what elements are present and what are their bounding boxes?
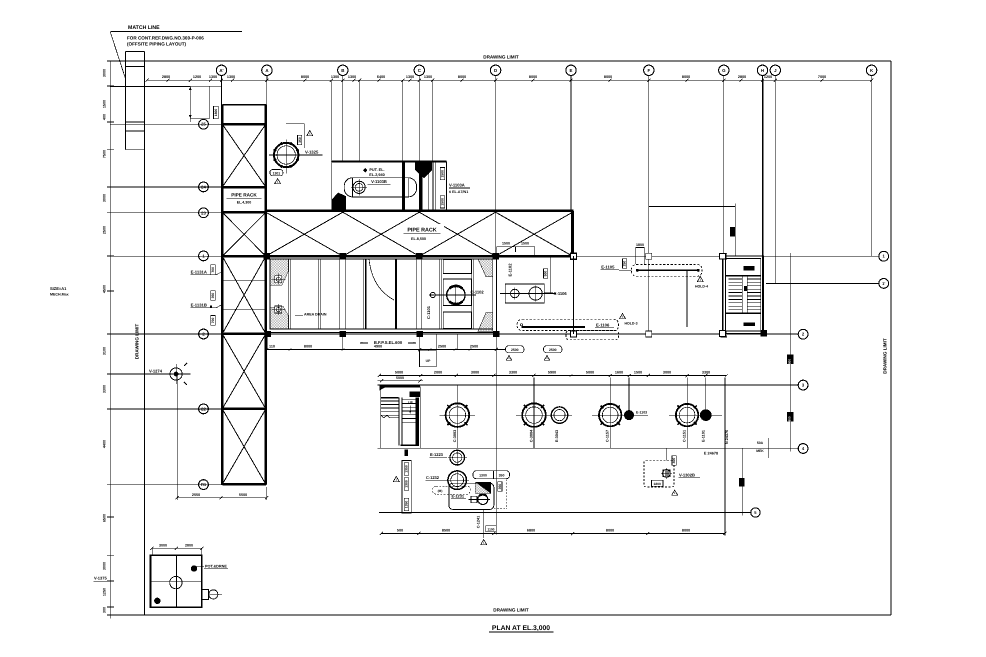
svg-text:C-1157: C-1157: [606, 430, 610, 442]
svg-text:V-1103A: V-1103A: [449, 183, 465, 188]
svg-text:4900: 4900: [374, 344, 382, 348]
svg-text:C-1106: C-1106: [554, 291, 568, 296]
svg-text:G: G: [722, 68, 726, 73]
svg-text:700: 700: [211, 267, 215, 273]
svg-text:V-1103B: V-1103B: [371, 179, 387, 184]
svg-text:C-1102: C-1102: [471, 289, 485, 294]
svg-text:6800: 6800: [527, 528, 535, 532]
svg-text:1250: 1250: [103, 588, 107, 596]
svg-text:E-1102: E-1102: [508, 263, 513, 277]
svg-text:5000: 5000: [586, 370, 594, 374]
svg-text:B.F.P.S.EL.600: B.F.P.S.EL.600: [374, 340, 403, 345]
svg-text:MECH.Max: MECH.Max: [50, 293, 69, 297]
svg-text:1300: 1300: [405, 480, 409, 488]
svg-text:8000: 8000: [682, 528, 690, 532]
svg-text:1800: 1800: [636, 243, 644, 247]
svg-text:6500: 6500: [103, 514, 107, 522]
svg-text:2500: 2500: [549, 348, 557, 352]
svg-text:50A: 50A: [757, 441, 764, 445]
svg-text:E-1101: E-1101: [701, 430, 705, 442]
svg-text:≈: ≈: [413, 341, 415, 345]
svg-text:3000: 3000: [103, 194, 107, 202]
svg-text:1100: 1100: [488, 527, 495, 531]
svg-text:8000: 8000: [304, 344, 312, 348]
svg-text:1300: 1300: [227, 75, 235, 79]
svg-text:C-1151: C-1151: [683, 430, 687, 442]
svg-text:3000: 3000: [103, 562, 107, 570]
svg-text:6400: 6400: [377, 75, 385, 79]
svg-text:PLAN AT EL.3,000: PLAN AT EL.3,000: [492, 625, 550, 632]
svg-text:2500: 2500: [470, 344, 478, 348]
svg-text:1500: 1500: [103, 100, 107, 108]
svg-text:2800: 2800: [185, 543, 193, 547]
svg-text:8000: 8000: [458, 75, 466, 79]
svg-text:E-1103: E-1103: [636, 411, 647, 415]
svg-text:1350: 1350: [405, 501, 409, 509]
svg-text:500: 500: [397, 528, 403, 532]
svg-text:1300: 1300: [406, 75, 414, 79]
svg-text:1350: 1350: [405, 465, 409, 473]
svg-text:E-1105: E-1105: [601, 264, 615, 269]
svg-text:3000: 3000: [159, 543, 167, 547]
svg-text:≈: ≈: [361, 341, 363, 345]
svg-text:MEK: MEK: [756, 449, 764, 453]
svg-text:PIPE RACK: PIPE RACK: [407, 228, 436, 234]
svg-text:800: 800: [788, 359, 792, 364]
svg-text:8000: 8000: [604, 75, 612, 79]
svg-text:E-3043: E-3043: [555, 430, 559, 442]
svg-text:2500: 2500: [511, 348, 519, 352]
svg-text:8000: 8000: [301, 75, 309, 79]
svg-text:C-3003: C-3003: [453, 430, 457, 442]
svg-text:EL.8,500: EL.8,500: [411, 237, 426, 241]
svg-text:HOLD-3: HOLD-3: [624, 322, 637, 326]
svg-text:DRAWING LIMIT: DRAWING LIMIT: [135, 324, 140, 360]
svg-text:E-1131A: E-1131A: [191, 269, 207, 274]
svg-text:PIPE RACK: PIPE RACK: [231, 193, 257, 198]
svg-text:V-1274: V-1274: [149, 369, 163, 374]
svg-text:500: 500: [544, 271, 548, 277]
svg-text:1500: 1500: [521, 242, 529, 246]
svg-text:DRAWING LIMIT: DRAWING LIMIT: [483, 55, 519, 60]
svg-text:(M): (M): [438, 489, 443, 493]
svg-text:1300: 1300: [348, 75, 356, 79]
svg-text:3000: 3000: [471, 370, 479, 374]
svg-text:3100: 3100: [103, 347, 107, 355]
svg-text:1500: 1500: [441, 170, 445, 178]
svg-text:110: 110: [269, 344, 275, 348]
svg-text:5000: 5000: [396, 376, 404, 380]
svg-text:C-1101: C-1101: [426, 305, 431, 319]
svg-text:MATCH LINE: MATCH LINE: [128, 25, 160, 31]
svg-text:1200: 1200: [193, 75, 201, 79]
svg-text:1500: 1500: [634, 370, 642, 374]
svg-text:E-1223: E-1223: [430, 452, 444, 457]
svg-text:7000: 7000: [818, 75, 826, 79]
svg-text:V-1325: V-1325: [305, 150, 319, 155]
svg-text:3000: 3000: [663, 370, 671, 374]
svg-text:800: 800: [788, 416, 792, 421]
svg-text:UP: UP: [426, 359, 431, 363]
svg-text:AREA DRAIN: AREA DRAIN: [304, 313, 327, 317]
svg-text:EL.2,940: EL.2,940: [369, 173, 384, 177]
svg-text:DRAWING LIMIT: DRAWING LIMIT: [883, 338, 888, 374]
svg-text:2500: 2500: [438, 344, 446, 348]
svg-text:EL.4,300: EL.4,300: [237, 200, 252, 204]
svg-text:350: 350: [298, 137, 302, 143]
svg-text:N 24376: N 24376: [725, 430, 729, 444]
svg-text:2800: 2800: [162, 75, 170, 79]
svg-text:4400: 4400: [103, 440, 107, 448]
svg-text:1800: 1800: [654, 482, 662, 486]
svg-text:1301: 1301: [273, 171, 281, 175]
svg-text:3300: 3300: [702, 370, 710, 374]
svg-text:PUT. EL.: PUT. EL.: [369, 168, 384, 172]
svg-text:2550: 2550: [192, 493, 200, 497]
svg-text:350: 350: [499, 474, 505, 478]
svg-text:8000: 8000: [529, 75, 537, 79]
svg-text:HOLD-4: HOLD-4: [695, 285, 708, 289]
svg-text:1600: 1600: [615, 370, 623, 374]
svg-text:8000: 8000: [682, 75, 690, 79]
svg-text:2800: 2800: [738, 75, 746, 79]
svg-text:3300: 3300: [509, 370, 517, 374]
svg-text:400: 400: [672, 458, 676, 464]
svg-text:¢ EL.A7/N1: ¢ EL.A7/N1: [449, 190, 468, 194]
svg-text:E: E: [570, 68, 573, 73]
svg-text:E-1231: E-1231: [452, 493, 465, 498]
svg-text:DRAWING LIMIT: DRAWING LIMIT: [493, 608, 529, 613]
svg-text:1300: 1300: [424, 75, 432, 79]
svg-text:1500: 1500: [502, 242, 510, 246]
svg-text:1200: 1200: [764, 75, 772, 79]
svg-text:1500: 1500: [441, 198, 445, 206]
svg-text:250: 250: [623, 261, 627, 267]
svg-text:300: 300: [103, 607, 107, 613]
svg-text:FOR CONT.REF.DWG.NO.369-P-006: FOR CONT.REF.DWG.NO.369-P-006: [127, 36, 204, 41]
svg-text:7500: 7500: [103, 150, 107, 158]
svg-text:3300: 3300: [103, 385, 107, 393]
svg-text:1300: 1300: [479, 474, 487, 478]
svg-text:V-1302B: V-1302B: [679, 472, 695, 477]
svg-text:8000: 8000: [606, 528, 614, 532]
svg-text:B: B: [341, 68, 344, 73]
svg-text:2500: 2500: [103, 226, 107, 234]
svg-text:F: F: [647, 68, 650, 73]
svg-text:E 24678: E 24678: [704, 452, 718, 456]
svg-text:1300: 1300: [331, 75, 339, 79]
svg-text:3000: 3000: [103, 69, 107, 77]
svg-text:E-1131B: E-1131B: [191, 302, 207, 307]
svg-text:A': A': [219, 68, 223, 73]
svg-text:5500: 5500: [239, 493, 247, 497]
svg-text:POT.&DRNE: POT.&DRNE: [205, 564, 227, 568]
svg-text:1300: 1300: [209, 75, 217, 79]
svg-text:1800: 1800: [214, 109, 218, 117]
svg-text:V-1375: V-1375: [94, 576, 107, 581]
svg-text:(OFFSITE PIPING LAYOUT): (OFFSITE PIPING LAYOUT): [127, 42, 187, 47]
svg-text:400: 400: [103, 114, 107, 120]
svg-text:D: D: [494, 68, 497, 73]
svg-text:350: 350: [498, 484, 502, 490]
svg-text:H: H: [761, 68, 764, 73]
svg-text:4500: 4500: [103, 285, 107, 293]
svg-text:E-1106: E-1106: [596, 322, 610, 327]
svg-text:C-1241: C-1241: [476, 516, 480, 528]
svg-text:C-3004: C-3004: [530, 429, 534, 442]
svg-text:SIZE=A1: SIZE=A1: [50, 286, 67, 291]
svg-text:2000: 2000: [434, 370, 442, 374]
svg-text:C-1232: C-1232: [426, 475, 440, 480]
svg-text:5900: 5900: [548, 370, 556, 374]
svg-text:8500: 8500: [442, 528, 450, 532]
svg-text:1': 1': [882, 281, 885, 286]
svg-text:700: 700: [211, 317, 215, 323]
svg-text:5000: 5000: [395, 370, 403, 374]
svg-text:350: 350: [211, 293, 215, 299]
